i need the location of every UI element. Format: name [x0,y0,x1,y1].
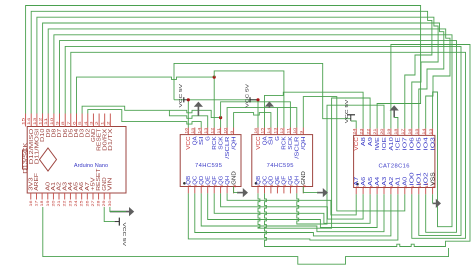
svg-text:QF: QF [212,176,218,185]
wire RCLK trunk [77,77,215,127]
svg-text:A10: A10 [389,137,395,151]
wire D11 to IO6 [37,17,438,128]
shift register U3 74HC595 body [252,135,313,187]
svg-text:VCC: VCC [186,136,192,150]
power VCC 5V symbol at U4 [344,98,355,123]
svg-text:A1: A1 [396,177,402,186]
svg-text:24: 24 [74,201,78,207]
wire QA2 to A8 [265,92,364,128]
power VCC 5V symbol at U3 [244,83,258,108]
svg-text:12: 12 [39,118,43,125]
svg-text:19: 19 [387,129,391,135]
svg-text:SI: SI [269,136,275,145]
svg-text:7: 7 [67,121,71,125]
supply arrow above U4 !CE [390,105,399,117]
svg-text:RCK: RCK [212,136,218,150]
wire QD1 to A3 [201,193,384,231]
svg-text:15: 15 [191,128,195,134]
wire Nano +5V down [104,207,114,222]
Arduino Nano top pin stubs [25,114,27,127]
wire D8 to IO3 [54,35,452,227]
power VCC 5V symbol at U2 [178,83,188,108]
junction VCC1 [187,98,190,101]
svg-text:A7: A7 [354,177,360,186]
EEPROM U4 CAT28C16 body [354,135,435,187]
svg-text:15: 15 [261,128,265,134]
wire ground bus along bottom [43,207,449,264]
svg-text:!CE: !CE [396,136,402,150]
svg-text:!OE: !OE [382,136,388,150]
wire QB2 to A9 [258,98,370,228]
svg-text:/SCLR: /SCLR [225,136,231,159]
svg-text:17: 17 [401,129,405,135]
junction VCC2 [256,98,259,101]
svg-text:14: 14 [27,118,31,125]
svg-text:SCK: SCK [288,136,294,150]
wire GND1 stub [234,187,238,193]
svg-text:QE: QE [275,175,281,185]
junction SCK [219,116,222,119]
wire QC2 to A10 around right side [265,45,471,247]
svg-text:QD: QD [199,176,205,185]
svg-text:G: G [206,136,212,141]
svg-text:15: 15 [22,118,26,125]
wire D5 to IO0 [71,52,466,238]
svg-text:IO3: IO3 [430,137,436,151]
svg-text:VCC: VCC [256,136,262,150]
svg-text:A6: A6 [361,177,367,186]
wire SER to SI1 [88,110,201,128]
svg-text:4: 4 [84,121,88,125]
wire Nano GND down [110,207,126,212]
svg-text:14: 14 [197,128,201,134]
svg-text:17: 17 [35,201,39,207]
svg-text:QH: QH [295,176,301,185]
74HC595 U3 pin1 marker [255,182,258,185]
svg-text:QB: QB [256,175,262,185]
svg-text:QC: QC [262,176,268,185]
Arduino Nano left marker [23,150,28,169]
wire GND2 stub [303,187,317,193]
svg-text:9: 9 [56,121,60,125]
wire QH2 to !OE [297,105,384,224]
wire D13 to !WE [26,6,421,129]
svg-text:10: 10 [50,118,54,125]
svg-text:A4: A4 [375,177,381,186]
svg-text:G: G [275,136,281,141]
svg-text:QH: QH [225,176,231,185]
svg-text:QG: QG [288,176,294,185]
svg-text:VCC: VCC [354,137,360,151]
svg-text:21: 21 [57,201,61,207]
svg-text:CAT28C16: CAT28C16 [378,164,409,170]
svg-text:16: 16 [185,128,189,134]
wire /SCLR link [227,108,297,128]
svg-text:24: 24 [352,129,356,135]
wire D9 to IO4 [48,29,450,128]
svg-text:29: 29 [102,201,106,207]
svg-text:QA: QA [262,136,268,146]
ground arrow at U3 GND [317,188,328,197]
CAT28C16 pin stubs [355,128,357,135]
svg-text:QB: QB [186,175,192,185]
svg-text:16: 16 [408,129,412,135]
svg-text:19: 19 [46,201,50,207]
svg-text:VCC 5V: VCC 5V [344,98,349,123]
power VCC 5V symbol at Nano [115,218,127,248]
svg-text:SI: SI [199,136,205,145]
svg-text:11: 11 [287,128,291,134]
svg-text:74HC595: 74HC595 [195,163,222,169]
svg-text:18: 18 [40,201,44,207]
74HC595 U2 pin stubs [187,128,189,135]
svg-text:12: 12 [280,128,284,134]
wire QB1 to A1 [188,193,398,240]
svg-text:IO1: IO1 [417,172,423,186]
svg-text:A8: A8 [361,137,367,146]
wire SCK link to U3 [221,102,291,128]
svg-text:9: 9 [230,131,234,134]
svg-text:9: 9 [300,131,304,134]
svg-text:A3: A3 [382,177,388,186]
svg-text:10: 10 [293,128,297,134]
svg-text:IO7: IO7 [403,137,409,151]
svg-text:30: 30 [108,201,112,207]
svg-text:3: 3 [89,121,93,125]
ground arrow at Nano GND [110,207,134,216]
svg-text:GND: GND [231,171,237,185]
svg-text:14: 14 [267,128,271,134]
ground arrow at U2 GND [237,188,248,197]
svg-text:QC: QC [193,176,199,185]
svg-text:14: 14 [422,129,426,135]
svg-text:QE: QE [206,175,212,185]
svg-text:5: 5 [78,121,82,125]
op-amp U1 Arduino Nano body [27,127,126,194]
wire VCC1 drop [187,100,189,128]
svg-text:21: 21 [373,129,377,135]
svg-text:!WE: !WE [375,136,381,150]
svg-text:20: 20 [380,129,384,135]
wire QH1 to SI2 [234,113,271,128]
svg-text:13: 13 [274,128,278,134]
svg-text:Arduino Nano: Arduino Nano [74,163,108,169]
wire QH1 to A7 [227,193,356,215]
wire RCK link to U3 [214,71,284,128]
wire +5V trunk [174,63,351,118]
svg-text:74HC595: 74HC595 [267,163,294,169]
supply arrow above U2 [194,102,203,116]
svg-text:VIN: VIN [108,177,114,191]
svg-text:GND: GND [301,171,307,185]
svg-text:D1/TX: D1/TX [108,128,114,151]
svg-text:23: 23 [359,129,363,135]
svg-text:IO0: IO0 [410,172,416,186]
svg-text:12: 12 [210,128,214,134]
svg-text:IO6: IO6 [410,137,416,151]
wire D7 to IO2 [60,41,457,233]
svg-text:11: 11 [217,128,221,134]
svg-text:VSS: VSS [430,172,436,186]
svg-text:VCC 5V: VCC 5V [122,223,127,248]
74HC595 U3 pin stubs [257,128,259,135]
svg-text:2: 2 [95,121,99,125]
svg-text:QA: QA [193,136,199,146]
svg-text:13: 13 [204,128,208,134]
svg-text:26: 26 [85,201,89,207]
svg-text:IO2: IO2 [424,172,430,186]
svg-text:22: 22 [63,201,67,207]
wire D10 to IO5 [43,23,444,128]
svg-text:A9: A9 [368,137,374,146]
wire GND feed to G1 [169,110,207,127]
wire VSS stub [432,194,434,203]
supply arrow above U3 [265,101,274,107]
svg-text:2: 2 [106,121,110,125]
74HC595 U2 pin1 marker [183,182,186,185]
wire QF1 to A5 [214,193,370,223]
svg-text:AREF: AREF [34,173,40,191]
wire VCC rail [188,99,258,101]
svg-text:10: 10 [223,128,227,134]
svg-text:/SCLR: /SCLR [295,136,301,159]
svg-text:QF: QF [282,176,288,185]
svg-text:A0: A0 [403,177,409,186]
svg-text:QD: QD [269,176,275,185]
svg-text:27: 27 [91,201,95,207]
CAT28C16 pin1 marker [356,183,359,186]
svg-text:VCC 5V: VCC 5V [178,83,183,108]
wire +5V trunk to VCC1 bar [174,99,184,101]
svg-text:16: 16 [29,201,33,207]
svg-text:SCK: SCK [218,136,224,150]
wire /QH2 to A0 [303,97,405,211]
svg-text:IO5: IO5 [417,137,423,151]
svg-text:22: 22 [366,129,370,135]
svg-text:IO4: IO4 [424,137,430,151]
svg-text:QG: QG [218,176,224,185]
wire QC1 to A2 [195,193,391,236]
svg-text:23: 23 [68,201,72,207]
svg-text:13: 13 [33,118,37,125]
ground arrow at U4 VSS [433,199,441,208]
svg-text:16: 16 [254,128,258,134]
junction RCK trunk [213,76,216,79]
svg-text:8: 8 [61,121,65,125]
svg-text:/QH: /QH [301,136,307,150]
svg-text:18: 18 [394,129,398,135]
svg-text:20: 20 [51,201,55,207]
wire D6 to IO1 [65,46,461,235]
svg-text:A5: A5 [368,177,374,186]
svg-text:6: 6 [73,121,77,125]
svg-text:/QH: /QH [231,136,237,150]
svg-text:13: 13 [429,129,433,135]
wire QG1 to A6 [221,193,364,219]
svg-text:A2: A2 [389,177,395,186]
wire VCC to U4 [351,121,356,128]
wire !CE drop [394,118,398,129]
svg-text:15: 15 [415,129,419,135]
wire VCC2 drop [257,100,259,128]
wire G2 drop [276,108,278,128]
svg-text:RCK: RCK [282,136,288,150]
Arduino Nano bottom pin stubs [30,193,32,200]
wire SCLK to SCK1 [82,106,221,127]
wire D12 to IO7 [31,11,432,128]
svg-text:25: 25 [80,201,84,207]
svg-text:1: 1 [101,121,105,125]
Arduino Nano polarity diamond [40,148,57,171]
svg-text:11: 11 [44,118,48,125]
shift register U2 74HC595 body [180,135,241,187]
wire QE1 to A4 [208,193,377,227]
svg-text:28: 28 [97,201,101,207]
svg-text:VCC 5V: VCC 5V [244,83,249,108]
